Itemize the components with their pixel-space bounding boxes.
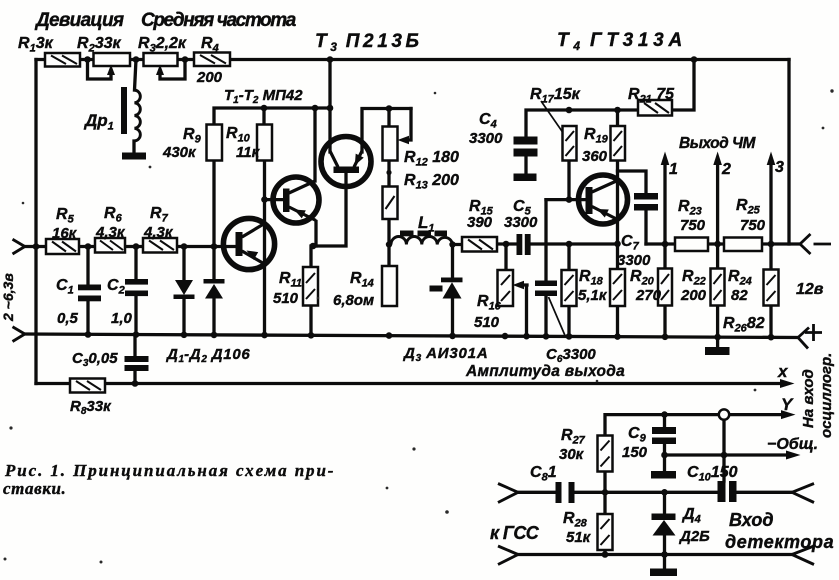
resistor R15 390 — [462, 237, 497, 252]
choke Dr1 coil — [135, 90, 141, 141]
svg-text:510: 510 — [474, 314, 500, 331]
svg-text:2: 2 — [721, 161, 731, 178]
wire C6 vertical line — [544, 200, 547, 336]
svg-text:Девиация: Девиация — [34, 10, 124, 31]
terminal input 2 lower — [13, 327, 25, 342]
svg-text:R32,2к: R32,2к — [138, 35, 187, 55]
wire right supply (C4,R17,R19,R21) — [526, 60, 694, 175]
terminal GSS upper — [498, 484, 518, 503]
capacitor C6 3300 — [535, 281, 557, 287]
resistor R5 16k — [46, 239, 79, 254]
terminal detector upper — [792, 484, 814, 503]
wire T3 collector lead to top rail — [328, 60, 331, 153]
svg-text:R18: R18 — [579, 268, 604, 288]
svg-text:Выход ЧМ: Выход ЧМ — [679, 135, 756, 152]
resistor R14 6,8om — [382, 266, 397, 306]
wire input row R5 R6 R7 to T1 base — [25, 245, 237, 248]
diode D2 — [204, 279, 225, 284]
transistor T4 GT313A — [579, 175, 628, 224]
svg-text:R28: R28 — [563, 510, 588, 530]
ground at bottom rail x717 — [705, 347, 730, 355]
resistor R12 180 — [383, 127, 398, 161]
resistor R8 33k — [70, 379, 105, 393]
svg-text:12в: 12в — [796, 281, 824, 298]
svg-text:Т4 ГТ313А: Т4 ГТ313А — [557, 30, 687, 53]
terminal GSS lower — [498, 546, 518, 565]
wire T3 base down to R11 node — [312, 173, 346, 247]
resistor R6 4,3k — [95, 238, 125, 253]
svg-text:Т3 П213Б: Т3 П213Б — [315, 31, 423, 54]
svg-text:R11: R11 — [279, 270, 302, 290]
terminal input 2 upper — [13, 239, 25, 254]
arrow R12 wiper — [398, 136, 410, 144]
resistor R4 200 — [194, 53, 230, 67]
wire R2 wiper bracket — [88, 60, 112, 80]
connector circle on Y line — [719, 409, 729, 419]
wire D1 stems — [182, 247, 185, 335]
svg-text:51к: 51к — [566, 529, 592, 546]
capacitor C3 0,05 — [125, 356, 149, 362]
capacitor C9 150 — [652, 427, 676, 434]
transistor T2 MP42 — [273, 177, 319, 223]
svg-text:30к: 30к — [559, 446, 585, 463]
resistor R2 33k (pot) — [94, 53, 131, 66]
svg-text:R833к: R833к — [70, 398, 112, 417]
resistor R24 82 — [711, 269, 725, 306]
wire T2 emitter lead — [314, 222, 317, 247]
resistor R3 2,2k (pot) — [144, 53, 178, 66]
wire T4 collector/emitter vertical — [616, 110, 619, 269]
svg-text:С81: С81 — [530, 464, 557, 484]
capacitor C7 3300 — [634, 193, 658, 200]
wire L1 right to R15, D3 stem — [453, 245, 463, 336]
wire GSS lower line — [518, 553, 792, 556]
resistor R13 200 — [383, 187, 398, 220]
svg-text:На вход: На вход — [800, 369, 817, 428]
svg-text:R21 75: R21 75 — [628, 86, 675, 106]
resistor R9 430k — [207, 125, 223, 161]
wire output node row — [646, 242, 789, 245]
svg-text:5,1к: 5,1к — [578, 287, 608, 304]
svg-text:C7: C7 — [621, 233, 640, 253]
transistor T1 MP42 — [223, 218, 274, 269]
svg-text:R233к: R233к — [77, 35, 121, 55]
wire rail A (R9/R10/T2 collector) — [214, 108, 330, 125]
svg-text:0,5: 0,5 — [57, 310, 79, 327]
svg-text:R2682: R2682 — [723, 315, 765, 335]
wire T4 base, R17 bottom lead — [546, 161, 586, 200]
inductor L1 core dashes — [400, 231, 414, 237]
svg-text:Вход: Вход — [729, 510, 773, 530]
resistor R7 4,3k — [143, 238, 177, 253]
arrow R3 wiper — [156, 65, 164, 76]
svg-text:200: 200 — [680, 287, 707, 304]
arrow output 3 — [767, 152, 776, 166]
wire R13/L1/R14 junction — [387, 161, 390, 266]
wire T2 base tap — [265, 198, 285, 201]
resistor R23 750 — [675, 238, 708, 252]
svg-text:Средняя частота: Средняя частота — [141, 10, 297, 31]
wire C9 stems — [663, 415, 666, 471]
svg-text:82: 82 — [731, 287, 748, 304]
capacitor C10 150 — [718, 481, 726, 502]
svg-text:L1: L1 — [418, 213, 435, 235]
svg-text:R22: R22 — [682, 268, 706, 288]
resistor R22 200 — [658, 269, 672, 306]
svg-text:Рис. 1. Принципиальная схема: Рис. 1. Принципиальная схема при- — [4, 461, 335, 480]
svg-text:16к: 16к — [52, 225, 78, 242]
svg-text:ставки.: ставки. — [3, 479, 66, 498]
resistor R11 510 — [303, 267, 318, 306]
arrow R16 wiper — [513, 281, 525, 289]
svg-text:R13 200: R13 200 — [404, 172, 459, 192]
svg-text:Др1: Др1 — [83, 111, 114, 133]
svg-text:R6: R6 — [104, 205, 123, 225]
resistor R20 270 — [610, 269, 625, 306]
arrow Y axis — [781, 410, 796, 419]
svg-text:150: 150 — [622, 444, 648, 461]
svg-text:360: 360 — [582, 148, 608, 165]
svg-text:750: 750 — [680, 217, 706, 234]
capacitor C5 3300 — [517, 234, 523, 255]
ground below Dr1 — [122, 153, 146, 160]
svg-text:R20: R20 — [630, 268, 655, 288]
arrow output 2 — [713, 152, 722, 166]
arrow output 1 — [661, 152, 670, 166]
wire R11 leads — [309, 246, 312, 335]
resistor R21 75 — [638, 100, 672, 116]
svg-text:1,0: 1,0 — [111, 310, 133, 327]
ground below C9 — [651, 471, 676, 479]
terminal detector lower — [792, 546, 814, 565]
wire R16 wiper down — [521, 285, 527, 336]
terminal plus 12v — [798, 324, 822, 349]
resistor R10 11k — [257, 125, 272, 161]
pointer line from C6 to its label — [549, 297, 566, 336]
wire rail B (T3 emitter, R12) — [362, 109, 411, 153]
wire R15 to C5, R16 top — [497, 244, 517, 270]
wire R3 wiper bracket — [160, 60, 185, 80]
capacitor C4 3300 — [514, 137, 538, 145]
wire right drop from rail to minus terminal — [789, 60, 800, 245]
svg-text:C1: C1 — [56, 277, 74, 297]
wire C7 bracket and stems — [618, 171, 647, 244]
wire C1 stems — [86, 247, 89, 335]
wire circle connector to C10 — [722, 420, 725, 481]
svg-text:Амплитуда выхода: Амплитуда выхода — [465, 363, 625, 380]
wire X sweep line with R8 and C3 — [36, 335, 785, 384]
svg-text:осциллогр.: осциллогр. — [818, 353, 835, 438]
wire C2 stems — [134, 247, 137, 335]
svg-text:к ГСС: к ГСС — [490, 523, 540, 543]
resistor R18 5,1k — [562, 270, 577, 306]
svg-text:R23: R23 — [678, 198, 702, 218]
svg-text:R12 180: R12 180 — [404, 149, 459, 169]
choke Dr1 core bar — [121, 87, 127, 134]
diode D4 D2B — [652, 514, 676, 521]
svg-text:детектора: детектора — [725, 532, 834, 552]
svg-text:750: 750 — [740, 217, 766, 234]
svg-text:R1715к: R1715к — [530, 86, 581, 106]
svg-text:2 ~6,3в: 2 ~6,3в — [0, 273, 16, 322]
svg-text:R4: R4 — [201, 35, 219, 55]
terminal minus 12v — [800, 234, 831, 254]
resistor R19 360 — [611, 126, 626, 161]
svg-text:R9: R9 — [183, 126, 202, 146]
wire Y line — [605, 415, 787, 436]
svg-text:3300: 3300 — [504, 214, 538, 231]
diode D1 — [175, 280, 193, 295]
arrow minus common — [786, 451, 801, 460]
svg-text:430к: 430к — [162, 144, 197, 161]
wire GSS upper line — [518, 491, 792, 494]
capacitor C2 1,0 — [125, 279, 148, 285]
svg-text:x: x — [777, 362, 789, 381]
wire T2 collector lead — [313, 108, 316, 181]
svg-text:Д2Б: Д2Б — [678, 528, 710, 545]
svg-text:C9: C9 — [628, 425, 647, 445]
svg-text:Д4: Д4 — [681, 506, 701, 526]
svg-text:Д3 АИ301А: Д3 АИ301А — [402, 345, 488, 364]
svg-text:200: 200 — [196, 69, 223, 86]
wire ladder resistor bottoms — [569, 244, 771, 337]
resistor R27 30k — [598, 436, 613, 472]
diode D3 tunnel AI301A — [441, 278, 463, 283]
resistor R26 82 — [764, 270, 779, 306]
svg-text:R24: R24 — [728, 268, 752, 288]
wire D4 leads — [663, 492, 666, 568]
svg-text:C2: C2 — [107, 277, 125, 297]
svg-text:C4: C4 — [479, 111, 497, 131]
resistor R17 15k — [563, 126, 577, 161]
inductor L1 coil — [391, 236, 453, 244]
svg-text:C10150: C10150 — [687, 464, 738, 484]
svg-text:R25: R25 — [736, 197, 761, 217]
resistor R28 51k — [598, 514, 613, 550]
wire R27 R28 leads — [603, 472, 606, 555]
svg-text:Т1-Т2 МП42: Т1-Т2 МП42 — [224, 87, 303, 106]
resistor R25 750 — [724, 238, 762, 252]
svg-text:3300: 3300 — [469, 130, 503, 147]
wire R12 wiper bracket — [406, 109, 411, 141]
svg-text:R14: R14 — [350, 270, 374, 290]
svg-text:C30,05: C30,05 — [72, 350, 118, 369]
svg-text:R27: R27 — [561, 427, 586, 447]
svg-text:3300: 3300 — [617, 252, 651, 269]
wire D2 stems (R9 bottom lead) — [212, 161, 215, 335]
svg-text:R10: R10 — [226, 125, 251, 145]
svg-text:Y: Y — [781, 395, 794, 414]
pointer line to R17 — [541, 101, 566, 137]
svg-text:3: 3 — [775, 159, 784, 176]
capacitor C1 0,5 — [78, 285, 101, 291]
svg-text:4,3к: 4,3к — [143, 224, 174, 241]
svg-text:6,8ом: 6,8ом — [333, 292, 374, 309]
ground below C4 — [514, 174, 537, 182]
resistor R1 3k — [45, 53, 80, 67]
svg-text:Д1-Д2 Д106: Д1-Д2 Д106 — [165, 346, 250, 365]
resistor R16 510 — [498, 270, 514, 306]
svg-text:R19: R19 — [584, 126, 609, 146]
svg-text:R7: R7 — [150, 205, 169, 225]
svg-text:1: 1 — [669, 161, 678, 178]
arrow R2 wiper — [107, 65, 115, 76]
svg-text:R13к: R13к — [18, 35, 54, 55]
wire R10 - T1 - bottom rail vertical — [263, 161, 266, 336]
wire choke Dr1 leads — [134, 60, 136, 153]
wire C5 to T4 emitter node — [530, 242, 618, 245]
svg-text:390: 390 — [467, 214, 493, 231]
svg-text:510: 510 — [273, 290, 299, 307]
wire output lines 1 2 3 — [665, 160, 771, 270]
wire top supply rail — [36, 58, 789, 61]
svg-text:R5: R5 — [56, 206, 75, 226]
arrow X axis — [780, 379, 795, 388]
svg-text:11к: 11к — [236, 144, 261, 161]
svg-text:−Общ.: −Общ. — [767, 436, 818, 453]
arrowheads — [107, 65, 801, 460]
ground below D4 — [650, 569, 677, 577]
wire chassis stem at output ladder — [716, 337, 719, 347]
wire left vertical from rail to X line — [34, 60, 37, 384]
svg-text:4,3к: 4,3к — [95, 224, 126, 241]
wire bottom ground rail — [25, 334, 798, 338]
transistor T3 P213B — [321, 137, 371, 187]
wire minus common line — [665, 453, 793, 456]
svg-text:270: 270 — [635, 287, 662, 304]
capacitor C8 1 — [556, 482, 562, 503]
